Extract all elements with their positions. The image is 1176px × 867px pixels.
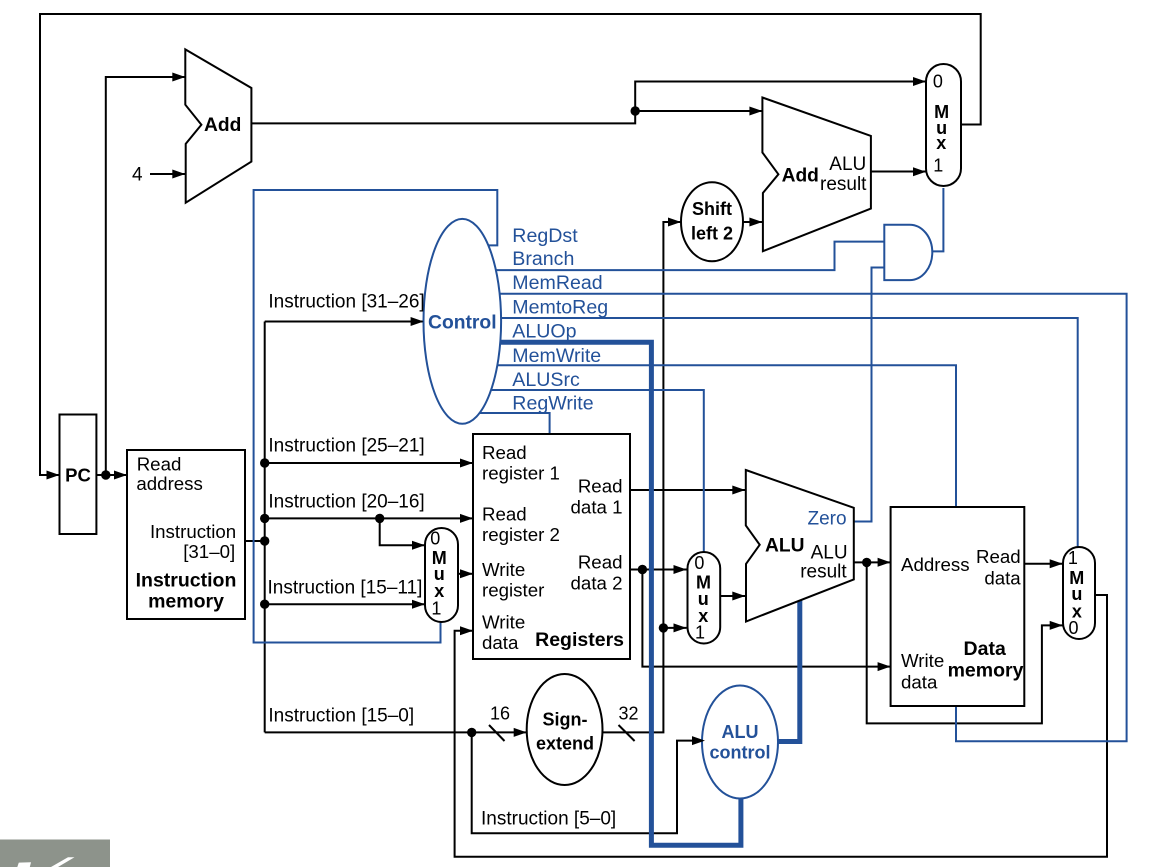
- svg-text:register 2: register 2: [482, 524, 560, 545]
- svg-text:data 2: data 2: [571, 573, 623, 594]
- svg-text:x: x: [936, 133, 946, 153]
- svg-text:0: 0: [1068, 618, 1078, 638]
- svg-text:Sign-: Sign-: [543, 710, 588, 730]
- svg-text:1: 1: [695, 623, 705, 643]
- svg-text:result: result: [820, 174, 867, 195]
- svg-text:Instruction: Instruction: [136, 570, 237, 592]
- svg-text:extend: extend: [536, 733, 594, 753]
- svg-text:Instruction [20–16]: Instruction [20–16]: [268, 492, 424, 513]
- svg-text:32: 32: [619, 704, 639, 724]
- svg-text:Registers: Registers: [535, 629, 624, 651]
- svg-text:Read: Read: [137, 453, 182, 474]
- svg-text:data: data: [984, 568, 1021, 589]
- svg-text:ALU: ALU: [765, 535, 804, 556]
- svg-text:control: control: [710, 743, 771, 763]
- svg-text:Read: Read: [976, 546, 1021, 567]
- svg-text:Write: Write: [901, 650, 944, 671]
- svg-text:Zero: Zero: [808, 508, 847, 529]
- svg-text:Instruction [25–21]: Instruction [25–21]: [268, 436, 424, 457]
- svg-text:register 1: register 1: [482, 463, 560, 484]
- svg-text:Branch: Branch: [512, 248, 574, 270]
- svg-text:Add: Add: [782, 166, 819, 187]
- svg-text:ALUSrc: ALUSrc: [512, 369, 580, 391]
- svg-text:0: 0: [430, 529, 440, 549]
- svg-text:result: result: [800, 561, 847, 582]
- svg-text:address: address: [136, 473, 202, 494]
- svg-text:1: 1: [431, 599, 441, 619]
- svg-text:16: 16: [490, 704, 510, 724]
- svg-text:Read: Read: [482, 442, 527, 463]
- svg-text:ALU: ALU: [829, 154, 866, 175]
- svg-text:memory: memory: [148, 591, 224, 613]
- svg-text:Read: Read: [578, 552, 623, 573]
- svg-text:Instruction [5–0]: Instruction [5–0]: [481, 809, 616, 830]
- svg-text:1: 1: [933, 156, 943, 176]
- svg-text:Data: Data: [964, 638, 1006, 660]
- svg-text:Instruction [31–26]: Instruction [31–26]: [268, 292, 424, 313]
- svg-text:register: register: [482, 580, 544, 601]
- svg-text:data: data: [482, 632, 519, 653]
- svg-text:0: 0: [694, 553, 704, 573]
- svg-text:Shift: Shift: [692, 199, 732, 219]
- svg-text:Read: Read: [482, 504, 527, 525]
- svg-text:Write: Write: [482, 559, 525, 580]
- svg-text:ALU: ALU: [722, 722, 759, 742]
- svg-text:data 1: data 1: [571, 497, 623, 518]
- svg-text:data: data: [901, 672, 938, 693]
- svg-text:left 2: left 2: [691, 224, 733, 244]
- svg-text:ALUOp: ALUOp: [512, 321, 576, 343]
- svg-text:Instruction [15–0]: Instruction [15–0]: [268, 706, 414, 727]
- svg-text:Instruction [15–11]: Instruction [15–11]: [268, 578, 423, 599]
- svg-text:RegWrite: RegWrite: [512, 393, 593, 415]
- svg-text:Add: Add: [204, 115, 241, 136]
- svg-text:Control: Control: [428, 313, 497, 334]
- svg-text:0: 0: [933, 71, 943, 91]
- svg-text:4: 4: [132, 165, 143, 186]
- svg-text:Instruction: Instruction: [150, 521, 236, 542]
- svg-text:MemtoReg: MemtoReg: [512, 296, 608, 318]
- svg-text:RegDst: RegDst: [512, 225, 578, 247]
- svg-text:PC: PC: [65, 465, 91, 486]
- svg-text:Write: Write: [482, 612, 525, 633]
- svg-text:memory: memory: [948, 659, 1024, 681]
- svg-text:MemWrite: MemWrite: [512, 345, 601, 367]
- svg-text:1: 1: [1068, 548, 1078, 568]
- svg-text:Read: Read: [578, 476, 623, 497]
- svg-text:MemRead: MemRead: [512, 272, 602, 294]
- svg-text:[31–0]: [31–0]: [183, 541, 235, 562]
- svg-text:Address: Address: [901, 554, 970, 575]
